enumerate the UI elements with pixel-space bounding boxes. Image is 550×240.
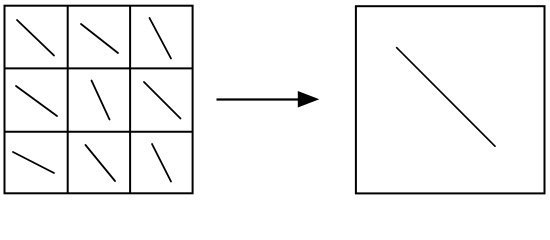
cell (3,2) segment [86,145,116,181]
3x3 grid outer square [5,6,193,194]
arrow head [298,91,320,108]
cell (2,3) segment [144,82,181,119]
arrow shaft [217,98,302,100]
cell (2,1) segment [16,86,57,116]
cell (1,1) segment [17,20,54,56]
cell (1,2) segment [81,24,118,53]
output long diagonal line [397,48,495,147]
grid vertical line 2 [129,6,131,194]
cell (1,3) segment [150,18,172,59]
cell (3,1) segment [13,152,54,173]
output square [356,6,545,193]
cell (3,3) segment [152,144,171,182]
cell (2,2) segment [92,81,110,120]
grid vertical line 1 [67,6,69,194]
grid horizontal line 2 [5,131,193,133]
grid horizontal line 1 [5,67,193,69]
